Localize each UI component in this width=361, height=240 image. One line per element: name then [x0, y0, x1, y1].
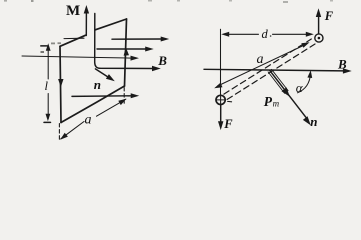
frame top-right edge — [95, 19, 126, 30]
svg-text:m: m — [273, 99, 280, 109]
a dimension line right part — [97, 99, 126, 116]
l dim tick bottom — [44, 121, 51, 123]
a dim arrow lower-left — [214, 83, 222, 89]
l dimension line lower part — [47, 94, 49, 119]
svg-text:B: B — [157, 53, 167, 68]
field line A left stub — [64, 37, 84, 39]
wire end circle top-right current-out — [315, 34, 323, 42]
rod lower dashed line — [227, 44, 315, 99]
l dimension line upper part — [47, 46, 49, 79]
svg-text:F: F — [223, 117, 233, 131]
frame bottom edge — [61, 86, 125, 123]
B field line right figure — [204, 69, 344, 71]
frame left edge — [60, 46, 61, 122]
n arrowhead right figure — [303, 116, 311, 125]
svg-text:B: B — [337, 57, 347, 72]
a dim arrow upper-right — [301, 42, 309, 48]
d dim arrow right — [306, 32, 314, 37]
angle alpha arc — [298, 74, 311, 93]
wire end circle bottom-left current-in — [216, 95, 225, 104]
svg-text:l: l — [45, 79, 49, 93]
a dim arrow left — [60, 133, 68, 140]
normal n shaft right figure — [270, 71, 306, 118]
d dim arrow left — [221, 32, 229, 37]
alpha arc arrowhead — [307, 70, 312, 78]
l dim tick top — [41, 45, 47, 47]
dash right of bottom circle — [228, 100, 232, 102]
d dimension line left part — [224, 33, 259, 35]
d dimension line right part — [273, 33, 311, 35]
svg-text:α: α — [296, 80, 304, 95]
rod upper dashed line — [224, 39, 311, 94]
p_m arrowhead — [282, 87, 290, 97]
svg-text:F: F — [324, 9, 334, 23]
force F up — [318, 17, 320, 34]
field line A — [112, 38, 162, 40]
svg-text:d: d — [262, 27, 269, 41]
svg-text:a: a — [85, 113, 92, 128]
dashed extension below bottom-left corner — [58, 124, 60, 140]
a dimension line right figure — [218, 44, 307, 86]
svg-text:n: n — [310, 114, 317, 129]
scan speck above frame corner — [51, 43, 55, 45]
magnetic moment p_m triple shaft — [272, 69, 289, 90]
field line B2 — [97, 48, 146, 50]
normal vector n left figure — [95, 69, 108, 77]
current arrow up on right edge — [124, 47, 129, 55]
frame right edge — [125, 19, 127, 86]
scan speck top-left — [31, 0, 34, 2]
cross inside bottom circle — [220, 96, 222, 104]
dashed extension below bottom-right corner — [123, 88, 125, 105]
leader line left / field line C left part — [22, 56, 132, 58]
svg-text:n: n — [94, 77, 101, 92]
field line low — [72, 95, 132, 98]
svg-text:P: P — [264, 94, 273, 109]
l dim arrow down — [46, 114, 51, 122]
field line C arrowhead — [131, 56, 140, 61]
right lead wire — [95, 14, 100, 69]
field line D — [99, 67, 153, 69]
dot inside top circle — [318, 37, 321, 40]
scan speck top-right area — [283, 1, 288, 3]
current arrow down on left edge — [58, 79, 63, 87]
d extension line — [220, 29, 222, 94]
svg-text:a: a — [257, 52, 264, 67]
scan speck near l dim — [41, 51, 45, 53]
force F down — [220, 105, 222, 122]
svg-text:M: M — [66, 3, 80, 19]
l dim arrow up — [46, 43, 51, 51]
frame top-left edge — [60, 35, 85, 46]
torque arrow M / axis wire — [85, 12, 87, 36]
a dim arrow right — [118, 99, 126, 105]
a dimension line left part — [61, 122, 84, 139]
